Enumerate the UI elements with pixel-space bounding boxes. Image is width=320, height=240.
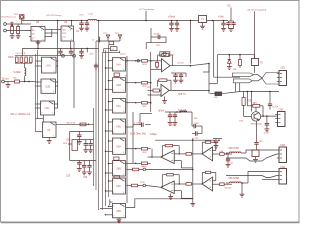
wire bbox=[146, 139, 194, 170]
label 600 ohm 2 bbox=[229, 177, 239, 180]
svg-text:U6D: U6D bbox=[116, 210, 121, 213]
svg-text:2: 2 bbox=[43, 124, 44, 126]
terminal circle bbox=[62, 54, 65, 57]
wire bbox=[110, 199, 193, 208]
ground bbox=[227, 67, 232, 70]
cable pair bbox=[232, 66, 279, 92]
svg-text:3: 3 bbox=[43, 135, 44, 137]
wire bbox=[104, 49, 120, 53]
wire bbox=[217, 54, 254, 84]
capacitor C2 bbox=[76, 21, 84, 33]
label L2 bbox=[14, 71, 22, 74]
svg-text:100pF: 100pF bbox=[154, 33, 160, 35]
svg-text:+5Vd: +5Vd bbox=[89, 53, 94, 55]
ground bbox=[168, 194, 173, 200]
svg-text:2: 2 bbox=[113, 101, 114, 103]
resistor R44 bbox=[162, 174, 179, 188]
capacitor C35 bbox=[87, 160, 91, 172]
ground bbox=[47, 141, 52, 144]
svg-text:2: 2 bbox=[113, 60, 114, 62]
component C20 bbox=[114, 157, 119, 160]
resistor R30 bbox=[126, 81, 151, 88]
ground bbox=[221, 28, 226, 31]
capacitor C1 bbox=[11, 22, 13, 26]
svg-text:6: 6 bbox=[123, 90, 124, 92]
capacitor C36 bbox=[168, 112, 172, 123]
capacitor C32 bbox=[88, 140, 93, 150]
ic U2A bbox=[42, 57, 57, 73]
resistor R6 bbox=[25, 57, 28, 62]
resistor R23 bbox=[147, 87, 161, 92]
wire bbox=[96, 40, 120, 42]
vertical bus bbox=[36, 50, 38, 132]
label U102 bbox=[64, 21, 68, 24]
svg-text:SPK: SPK bbox=[63, 143, 68, 145]
capacitor C34 bbox=[82, 160, 86, 172]
wire +5V rail bbox=[22, 20, 228, 22]
label TP1 bbox=[103, 33, 108, 35]
svg-text:6: 6 bbox=[123, 216, 124, 218]
junction bbox=[57, 20, 225, 22]
op-amp U9B bbox=[202, 147, 213, 161]
wire bbox=[29, 31, 31, 37]
junction bbox=[24, 81, 30, 83]
ic U2C bbox=[41, 101, 55, 115]
resistor R33 bbox=[126, 162, 151, 169]
svg-text:+5Vref: +5Vref bbox=[158, 109, 165, 112]
label C30 bbox=[66, 140, 71, 142]
wire bbox=[226, 172, 277, 195]
svg-text:U4B: U4B bbox=[116, 84, 121, 87]
label +36-75V unregulated bbox=[247, 8, 267, 11]
connector CN3 bbox=[277, 147, 287, 163]
svg-text:6: 6 bbox=[123, 174, 124, 176]
svg-text:C30: C30 bbox=[66, 140, 71, 142]
capacitor C10 bbox=[175, 21, 179, 29]
ic U5A bbox=[43, 122, 57, 138]
label C101 bbox=[46, 14, 62, 17]
svg-text:+36-75V unregulated: +36-75V unregulated bbox=[247, 8, 267, 11]
ic U6D bbox=[113, 203, 126, 217]
svg-text:2: 2 bbox=[113, 80, 114, 82]
wire bbox=[148, 149, 161, 158]
svg-text:U4A: U4A bbox=[116, 64, 121, 67]
svg-text:(CD+9V)Chargr: (CD+9V)Chargr bbox=[46, 14, 62, 17]
capacitor C31 bbox=[78, 140, 91, 150]
svg-text:C33: C33 bbox=[66, 176, 71, 178]
label +5Vref2 bbox=[158, 109, 165, 112]
capacitor C9 bbox=[169, 21, 173, 29]
svg-text:3: 3 bbox=[113, 69, 114, 71]
svg-text:3: 3 bbox=[113, 192, 114, 194]
connector CN1 bbox=[277, 71, 287, 86]
label C33 bbox=[66, 176, 88, 179]
capacitor C30 bbox=[70, 131, 94, 141]
inductor L4 bbox=[180, 111, 187, 112]
resistor R4 bbox=[16, 57, 19, 62]
label R79 bbox=[156, 45, 161, 47]
label caps bbox=[16, 53, 26, 55]
resistor R32 bbox=[126, 147, 151, 154]
wire bbox=[244, 106, 263, 117]
vertical bus bbox=[127, 52, 151, 203]
wire bbox=[165, 111, 192, 113]
op-amp U9A bbox=[161, 150, 174, 163]
label TP3 bbox=[177, 61, 184, 64]
label +5V Termination bbox=[139, 8, 156, 11]
op-amp U8A bbox=[162, 59, 171, 72]
label U2-14 bbox=[120, 53, 127, 55]
label 100pF bbox=[154, 33, 160, 35]
vertical bus bbox=[99, 21, 109, 211]
wire bbox=[7, 82, 9, 85]
capacitor C33 bbox=[70, 131, 96, 168]
svg-text:U4D: U4D bbox=[116, 126, 121, 129]
resistor R1 bbox=[11, 24, 14, 36]
label 100ohm bbox=[130, 133, 146, 136]
capacitor C52 bbox=[151, 35, 166, 39]
svg-text:2: 2 bbox=[41, 103, 42, 105]
ground bbox=[16, 36, 21, 39]
capacitor C12 bbox=[226, 21, 230, 29]
ground bbox=[77, 169, 92, 175]
ic U102 bbox=[61, 26, 74, 41]
svg-text:3: 3 bbox=[113, 111, 114, 113]
junction bbox=[208, 63, 210, 92]
op-amp U9C bbox=[161, 181, 174, 194]
ground bbox=[240, 194, 245, 197]
vertical bus bbox=[192, 138, 194, 200]
ground bbox=[190, 200, 195, 206]
label 600 ohm coil bbox=[11, 114, 31, 116]
wire bbox=[251, 92, 253, 112]
wire bbox=[174, 183, 193, 198]
capacitor C3 bbox=[85, 21, 89, 29]
ground bbox=[77, 142, 93, 153]
svg-text:(100 Ohm 1%): (100 Ohm 1%) bbox=[130, 133, 146, 136]
label +5Vd bbox=[89, 53, 94, 55]
wire bbox=[71, 21, 73, 27]
capacitor C37 bbox=[173, 112, 177, 123]
svg-text:4.7uF: 4.7uF bbox=[264, 132, 270, 134]
resistor R7 bbox=[14, 77, 20, 83]
wire bbox=[201, 126, 203, 134]
ground bbox=[85, 28, 90, 31]
resistor R43 bbox=[202, 141, 216, 154]
label RJ11 phone line bbox=[2, 16, 16, 18]
wire bbox=[256, 121, 258, 142]
wire bbox=[145, 11, 147, 21]
ground bbox=[173, 80, 178, 83]
capacitor C5b bbox=[69, 48, 73, 55]
label D201 bbox=[228, 4, 232, 7]
ground bbox=[175, 28, 180, 31]
svg-text:6: 6 bbox=[53, 91, 54, 93]
svg-text:+1Vref: +1Vref bbox=[177, 61, 184, 64]
svg-text:10uH coil: 10uH coil bbox=[178, 110, 187, 112]
capacitor C26 bbox=[265, 116, 269, 129]
inductor RZ2 bbox=[230, 182, 242, 183]
capacitor C11 bbox=[221, 21, 225, 29]
svg-text:U6A: U6A bbox=[116, 145, 121, 148]
resistor R49 bbox=[213, 183, 233, 190]
svg-text:TP8 7V: TP8 7V bbox=[178, 94, 186, 96]
label TX out bbox=[2, 78, 9, 81]
resistor R31 bbox=[126, 101, 151, 108]
fuse F1 bbox=[252, 55, 264, 66]
resistor R22 bbox=[158, 79, 171, 91]
svg-text:6: 6 bbox=[52, 113, 53, 115]
junction bbox=[190, 65, 192, 67]
wire bbox=[86, 48, 88, 52]
terminal J2 bbox=[2, 80, 5, 83]
resistor R47 bbox=[202, 171, 216, 184]
resistor R40 bbox=[162, 144, 179, 157]
resistor R21 bbox=[151, 61, 162, 70]
svg-text:6: 6 bbox=[123, 192, 124, 194]
transistor Q1 bbox=[251, 112, 260, 121]
capacitor C15 bbox=[126, 123, 151, 128]
resistor R35 bbox=[126, 182, 145, 187]
wire bbox=[55, 61, 59, 108]
svg-text:3: 3 bbox=[113, 216, 114, 218]
capacitor C5a bbox=[58, 48, 62, 55]
ic U4D bbox=[113, 119, 126, 134]
ic U3B bbox=[110, 47, 117, 51]
ground bbox=[229, 29, 234, 32]
ground bbox=[10, 36, 15, 39]
svg-text:3: 3 bbox=[113, 132, 114, 134]
ic U4C bbox=[113, 99, 126, 114]
svg-text:V.29pa: V.29pa bbox=[150, 134, 158, 136]
ground bbox=[168, 123, 173, 126]
ic U4A bbox=[113, 58, 126, 71]
ground bbox=[6, 85, 11, 88]
capacitor C22 bbox=[179, 73, 183, 80]
resistor R20 bbox=[158, 54, 173, 66]
label TP2 bbox=[115, 33, 120, 35]
component C19 bbox=[114, 73, 128, 77]
component C20b bbox=[114, 176, 120, 179]
svg-text:2: 2 bbox=[113, 206, 114, 208]
wire bbox=[4, 81, 35, 83]
svg-text:600ohm: 600ohm bbox=[225, 188, 233, 190]
capacitor C39 bbox=[192, 131, 202, 140]
label Q1 bbox=[240, 121, 263, 126]
svg-text:R40 4.7K: R40 4.7K bbox=[67, 122, 76, 124]
ic U101 bbox=[31, 27, 45, 42]
label 4.7uF bbox=[264, 132, 270, 134]
zener D3 bbox=[228, 55, 232, 67]
svg-text:+5V Termination: +5V Termination bbox=[139, 8, 156, 11]
terminal circle bbox=[73, 54, 76, 57]
svg-text:+5Vref: +5Vref bbox=[168, 16, 175, 19]
wire bbox=[48, 138, 50, 141]
svg-text:2: 2 bbox=[42, 81, 43, 83]
svg-text:6: 6 bbox=[123, 152, 124, 154]
svg-text:C6 C7 C8: C6 C7 C8 bbox=[16, 53, 26, 55]
wire bbox=[171, 73, 186, 77]
terminal J1 ring bbox=[4, 29, 7, 32]
svg-text:+5Va: +5Va bbox=[218, 16, 224, 19]
connector CN4 bbox=[277, 169, 287, 185]
capacitor C23 bbox=[268, 92, 279, 110]
wire rail bbox=[240, 91, 279, 93]
ground bbox=[173, 123, 178, 126]
resistor R42 bbox=[181, 153, 202, 156]
label 4.7uF bbox=[134, 122, 140, 124]
svg-text:6: 6 bbox=[53, 135, 54, 137]
svg-text:3: 3 bbox=[113, 152, 114, 154]
wire bbox=[254, 11, 256, 58]
svg-text:2: 2 bbox=[113, 121, 114, 123]
label spk bbox=[63, 143, 68, 145]
resistor R30b bbox=[242, 92, 252, 110]
wire bbox=[56, 123, 94, 125]
terminal circle bbox=[137, 60, 139, 62]
wire bbox=[192, 112, 198, 126]
capacitor C38 bbox=[192, 123, 202, 128]
svg-text:600 OHM: 600 OHM bbox=[229, 147, 239, 150]
capacitor C13 bbox=[231, 21, 235, 29]
svg-text:U2B: U2B bbox=[45, 85, 50, 88]
svg-text:U2-14: U2-14 bbox=[120, 53, 127, 55]
label C11 bbox=[218, 16, 224, 19]
label CN2 bbox=[279, 109, 284, 112]
label R55 bbox=[233, 69, 238, 71]
svg-text:3: 3 bbox=[62, 39, 63, 41]
resistor R55 bbox=[239, 55, 242, 68]
svg-text:2: 2 bbox=[42, 59, 43, 61]
wire bbox=[146, 28, 166, 49]
ic U4B bbox=[113, 78, 126, 93]
ground bbox=[179, 80, 184, 83]
svg-text:V.29dn: V.29dn bbox=[14, 71, 22, 74]
ground bbox=[79, 28, 84, 31]
svg-text:RJ11 Phone Line: RJ11 Phone Line bbox=[2, 16, 16, 18]
svg-text:3: 3 bbox=[113, 90, 114, 92]
speaker SP1 bbox=[68, 140, 78, 151]
capacitor C14 bbox=[94, 63, 98, 70]
resistor R29 bbox=[126, 60, 151, 67]
wire bbox=[36, 115, 44, 132]
ground bbox=[162, 97, 167, 104]
label 10uH coil bbox=[178, 110, 187, 112]
wire bbox=[169, 89, 209, 91]
svg-text:CN1: CN1 bbox=[280, 67, 285, 69]
label CN3 bbox=[280, 144, 285, 147]
svg-text:6: 6 bbox=[42, 39, 43, 41]
capacitor C41 bbox=[226, 154, 234, 167]
label V29 bbox=[150, 134, 158, 136]
wire bbox=[105, 60, 113, 216]
inductor L2 bbox=[25, 63, 26, 81]
jack J3 bbox=[160, 52, 175, 57]
svg-text:6: 6 bbox=[53, 71, 54, 73]
component MIC bbox=[252, 144, 259, 159]
label R44 4.7K bbox=[67, 122, 90, 125]
ground bbox=[200, 26, 205, 29]
ground bbox=[253, 159, 258, 162]
label R31b bbox=[253, 104, 256, 106]
svg-text:2: 2 bbox=[113, 163, 114, 165]
wire bbox=[191, 21, 214, 78]
svg-text:6: 6 bbox=[123, 132, 124, 134]
svg-text:6: 6 bbox=[71, 39, 72, 41]
label R3 180K bbox=[8, 57, 14, 59]
svg-text:U6C: U6C bbox=[116, 185, 121, 188]
inductor RZ1 bbox=[230, 152, 242, 153]
svg-text:16V: 16V bbox=[194, 118, 198, 120]
label CN4 bbox=[280, 166, 285, 169]
top right cluster bbox=[213, 139, 222, 149]
wire bbox=[21, 19, 23, 21]
inductor L3 bbox=[92, 37, 100, 42]
junction bbox=[37, 40, 39, 42]
resistor R48 bbox=[213, 151, 233, 156]
ground bbox=[117, 219, 122, 223]
terminal circle bbox=[143, 168, 146, 171]
op-amp U9D bbox=[202, 177, 213, 191]
terminal J1 tip bbox=[4, 23, 7, 26]
wire bbox=[6, 21, 31, 31]
capacitor C24 bbox=[254, 141, 263, 144]
svg-text:180K: 180K bbox=[8, 57, 14, 59]
label C37 bbox=[171, 125, 176, 127]
svg-text:5Vcc: 5Vcc bbox=[79, 15, 83, 17]
vertical bus bbox=[58, 21, 74, 109]
label 600 ohm bbox=[229, 147, 239, 150]
test point TP1 bbox=[106, 35, 110, 41]
component FB2 bbox=[214, 92, 240, 99]
svg-text:U6B: U6B bbox=[116, 168, 121, 171]
svg-text:3: 3 bbox=[41, 113, 42, 115]
label C9 bbox=[168, 16, 175, 19]
svg-text:2: 2 bbox=[113, 180, 114, 182]
wire bbox=[15, 56, 74, 64]
ic U6A bbox=[113, 138, 126, 154]
wire bbox=[261, 115, 277, 117]
wire bbox=[45, 30, 61, 37]
ic U6B bbox=[113, 161, 126, 176]
wire bbox=[174, 153, 193, 168]
ic U2B bbox=[41, 79, 56, 93]
crystal Y1 bbox=[199, 16, 207, 23]
resistor R74 bbox=[247, 91, 264, 108]
svg-text:6: 6 bbox=[123, 111, 124, 113]
svg-text:C34: C34 bbox=[83, 177, 88, 179]
svg-text:3: 3 bbox=[42, 71, 43, 73]
svg-text:2: 2 bbox=[113, 140, 114, 142]
ic U6C bbox=[113, 178, 126, 194]
inductor L1 bbox=[79, 13, 96, 20]
wire bbox=[202, 23, 204, 27]
resistor R5 bbox=[20, 57, 23, 62]
wire bbox=[100, 209, 119, 220]
wire bbox=[226, 150, 277, 161]
varistor RV1 bbox=[14, 14, 24, 19]
resistor R2 bbox=[17, 24, 20, 36]
ic U3A bbox=[109, 41, 114, 44]
capacitor C5c bbox=[79, 48, 84, 58]
wire bbox=[151, 61, 209, 66]
terminal circle bbox=[143, 184, 146, 187]
svg-text:5: 5 bbox=[41, 30, 42, 32]
svg-text:U2A: U2A bbox=[46, 64, 51, 67]
wire bbox=[148, 94, 162, 96]
wire bbox=[36, 61, 42, 108]
wire bbox=[140, 114, 152, 125]
